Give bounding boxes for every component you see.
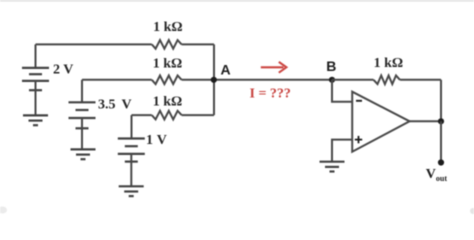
resistor R3 1kohm bottom bbox=[152, 111, 182, 120]
wire: op-amp output bbox=[410, 120, 441, 122]
stray mark bottom-left bbox=[0, 207, 7, 214]
stray mark right edge bbox=[470, 208, 474, 214]
plus sign bbox=[355, 136, 362, 143]
wire: top row left segment bbox=[36, 43, 152, 45]
wire: 2V battery to ground bbox=[35, 81, 37, 116]
svg-text:1 kΩ: 1 kΩ bbox=[153, 56, 183, 71]
ground G2 bbox=[71, 149, 96, 159]
wire: B to feedback resistor bbox=[332, 79, 374, 81]
output junction dot bbox=[438, 118, 444, 124]
battery V2 3.5V bbox=[69, 102, 96, 128]
svg-text:2 V: 2 V bbox=[53, 63, 73, 78]
wire: B down to inverting input bbox=[332, 80, 352, 102]
wire: 3.5V battery to ground bbox=[81, 118, 83, 149]
svg-text:1 kΩ: 1 kΩ bbox=[153, 20, 183, 35]
current arrow (red) bbox=[261, 62, 287, 73]
wire: top row right segment bbox=[182, 43, 214, 45]
wire: bottom row right segment bbox=[182, 114, 214, 116]
svg-text:3.5: 3.5 bbox=[98, 98, 116, 113]
op-amp U1 bbox=[352, 92, 409, 152]
node A junction dot bbox=[211, 77, 217, 83]
wire: right vertical down to output bbox=[440, 80, 442, 122]
svg-text:1: 1 bbox=[146, 133, 153, 148]
wire: 3.5V battery drop bbox=[81, 80, 83, 103]
minus sign bbox=[356, 100, 362, 102]
wire: non-inverting input to ground bbox=[332, 140, 352, 162]
ground G4 op-amp bbox=[320, 162, 345, 172]
battery V1 2V bbox=[22, 68, 49, 90]
wire: output down to Vout terminal bbox=[440, 121, 442, 162]
wire: middle row left segment bbox=[82, 79, 152, 81]
node B junction dot bbox=[329, 77, 335, 83]
ground G3 bbox=[119, 186, 144, 196]
svg-text:V: V bbox=[157, 133, 167, 148]
resistor R1 1kohm top bbox=[152, 40, 182, 49]
svg-text:B: B bbox=[326, 58, 336, 74]
Vout terminal dot bbox=[438, 159, 444, 165]
wire: 1V battery to ground bbox=[130, 154, 132, 186]
svg-text:I = ???: I = ??? bbox=[250, 87, 291, 102]
resistor R2 1kohm middle bbox=[152, 76, 182, 85]
svg-text:V: V bbox=[122, 98, 132, 113]
wire: bottom row left segment bbox=[132, 114, 152, 116]
battery V3 1V bbox=[118, 139, 145, 162]
ground G1 bbox=[23, 115, 48, 125]
svg-text:Vout: Vout bbox=[426, 167, 448, 183]
wire: 1V battery drop bbox=[131, 115, 133, 138]
svg-text:1 kΩ: 1 kΩ bbox=[374, 56, 404, 71]
top border line bbox=[0, 0, 474, 2]
wire: middle row from resistor to node B bbox=[182, 79, 332, 81]
svg-text:A: A bbox=[221, 62, 231, 78]
wire: feedback resistor to right vertical bbox=[400, 79, 441, 81]
svg-text:1 kΩ: 1 kΩ bbox=[153, 95, 183, 110]
wire: right bus vertical bbox=[213, 44, 215, 115]
wire: 2V battery up to top row bbox=[35, 44, 37, 68]
resistor R4 1kohm feedback bbox=[374, 76, 400, 85]
